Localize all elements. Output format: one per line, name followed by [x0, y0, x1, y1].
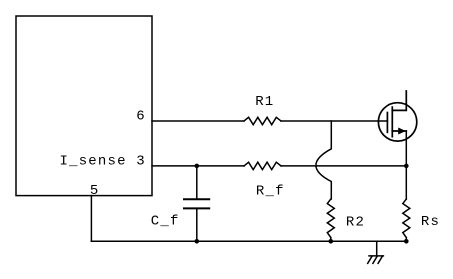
IC U1 box: [16, 16, 152, 196]
transistor Q1 source arrow: [398, 128, 406, 135]
svg-text:Rs: Rs: [421, 214, 440, 230]
wire R2 bottom lead: [330, 238, 332, 242]
svg-text:R2: R2: [346, 214, 365, 230]
wire MOSFET source to Rs: [405, 131, 407, 199]
wire bottom bus: [91, 240, 406, 242]
node C_f bottom junction: [195, 239, 200, 244]
node R2 bottom junction: [329, 239, 334, 244]
wire pin3 to R_f: [152, 165, 244, 167]
svg-text:R_f: R_f: [256, 184, 285, 200]
wire R1 to gate: [281, 120, 387, 122]
svg-text:5: 5: [90, 183, 100, 199]
node C_f top junction: [195, 164, 200, 169]
resistor Rs: [403, 199, 410, 238]
wire hop from R1 node over R_f wire: [316, 121, 331, 199]
capacitor C_f: [184, 199, 209, 208]
ground: [368, 241, 384, 263]
svg-text:C_f: C_f: [151, 214, 180, 230]
wire R_f to Rs top: [281, 165, 406, 167]
node Rs top junction: [404, 164, 409, 169]
transistor Q1 (MOSFET): [378, 91, 416, 141]
svg-text:R1: R1: [255, 94, 274, 110]
svg-text:I_sense 3: I_sense 3: [60, 153, 146, 169]
wire Rs bottom lead: [405, 238, 407, 242]
wire pin6 to R1: [152, 120, 244, 122]
svg-text:6: 6: [136, 109, 146, 125]
wire C_f bottom lead: [196, 208, 198, 241]
wire pin5 down: [90, 196, 92, 242]
resistor R2: [327, 199, 334, 238]
resistor R1: [244, 117, 281, 124]
wire C_f top lead: [196, 166, 198, 199]
node Rs bottom junction: [404, 239, 409, 244]
resistor R_f: [244, 162, 281, 169]
